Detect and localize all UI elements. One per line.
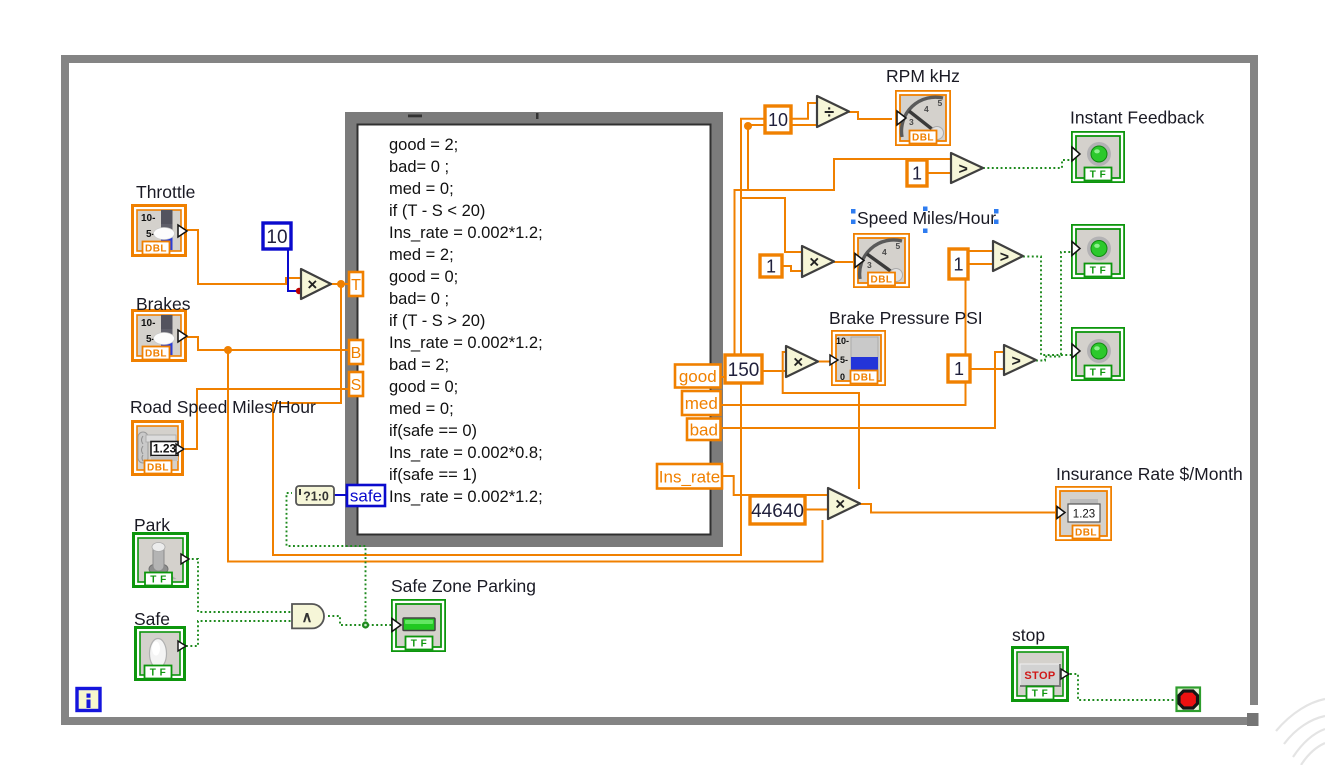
svg-text:bad = 2;: bad = 2;: [389, 356, 449, 374]
svg-text:4: 4: [924, 104, 929, 114]
svg-text:Brake Pressure PSI: Brake Pressure PSI: [829, 308, 983, 328]
svg-text:×: ×: [809, 253, 819, 272]
constant 44640: [750, 496, 805, 524]
comparator 3 greater: [1004, 345, 1036, 375]
control Park: [134, 534, 190, 587]
control Brakes: [133, 311, 188, 361]
loop iteration terminal: [77, 689, 100, 711]
svg-text:×: ×: [307, 275, 317, 294]
indicator Safe Zone Parking: [392, 600, 445, 651]
svg-text:Safe Zone Parking: Safe Zone Parking: [391, 576, 536, 596]
wire AND to Safe Zone Parking: [328, 616, 393, 625]
wire Road Speed to S tab: [185, 389, 348, 449]
wire select to safe tab (blue): [334, 494, 346, 496]
indicator Speed gauge: [854, 234, 909, 287]
loop condition terminal: [1177, 688, 1201, 712]
indicator Insurance Rate: [1056, 487, 1111, 540]
svg-text:Ins_rate = 0.002*0.8;: Ins_rate = 0.002*0.8;: [389, 444, 543, 462]
constant 10 blue: [263, 223, 291, 249]
svg-text:bad= 0 ;: bad= 0 ;: [389, 158, 449, 176]
svg-text:5: 5: [938, 98, 943, 108]
svg-text:good = 2;: good = 2;: [389, 136, 458, 154]
wire med tab to comparator 2: [721, 251, 993, 405]
svg-text:if(safe == 0): if(safe == 0): [389, 422, 477, 440]
svg-text:1: 1: [954, 359, 964, 379]
wire 1 to comparator 3: [970, 368, 1004, 370]
svg-text:Ins_rate = 0.002*1.2;: Ins_rate = 0.002*1.2;: [389, 334, 543, 352]
wire B value under formula node: [228, 350, 823, 562]
constant 10 orange: [765, 106, 791, 133]
svg-text:5: 5: [896, 241, 901, 251]
svg-text:T F: T F: [1090, 368, 1107, 379]
while loop border: [61, 55, 1259, 726]
svg-text:DBL: DBL: [870, 275, 892, 286]
AND gate: [292, 604, 324, 628]
svg-text:1: 1: [766, 256, 776, 276]
svg-text:T F: T F: [150, 575, 167, 586]
svg-text:good: good: [679, 367, 717, 386]
svg-text:T F: T F: [150, 668, 167, 679]
comparator 1 greater: [951, 153, 983, 183]
svg-text:bad: bad: [690, 420, 718, 439]
svg-text:5-: 5-: [840, 355, 848, 365]
wire feedback to select node: [287, 493, 366, 625]
wire T to speed multiply: [741, 198, 802, 252]
svg-text:stop: stop: [1012, 625, 1045, 645]
indicator Instant Feedback LED 1: [1072, 132, 1124, 182]
wire riser to divide input: [748, 125, 817, 190]
wire 1 to comparator 1: [927, 172, 951, 174]
svg-text:×: ×: [835, 495, 845, 514]
svg-text:150: 150: [728, 360, 760, 381]
svg-text:DBL: DBL: [147, 463, 169, 474]
control Throttle: [133, 206, 188, 256]
svg-text:4: 4: [882, 247, 887, 257]
svg-text:10: 10: [768, 110, 788, 130]
indicator Instant Feedback LED 2: [1072, 225, 1124, 278]
svg-text:10-: 10-: [141, 213, 155, 224]
multiply node speed: [802, 246, 834, 277]
multiply node throttle: [301, 269, 331, 299]
svg-text:DBL: DBL: [853, 373, 875, 384]
svg-text:>: >: [1011, 353, 1020, 370]
svg-text:DBL: DBL: [912, 133, 934, 144]
svg-text:T: T: [351, 277, 361, 294]
junction green: [362, 621, 369, 628]
wire bad tab to comparator 3: [721, 352, 1004, 428]
svg-text:1.23: 1.23: [153, 442, 177, 456]
wire stop to loop condition: [1070, 674, 1176, 700]
wire good tab to comparator 1: [720, 159, 951, 377]
decorative swoosh: [1276, 699, 1325, 765]
wire Park to AND gate: [183, 559, 292, 612]
wire comparator 3 to LED 2: [1036, 252, 1071, 361]
junction T: [337, 280, 345, 288]
svg-text:10: 10: [266, 227, 287, 248]
wire 44640 to insurance multiply: [805, 509, 828, 511]
formula node code text: [389, 136, 543, 506]
wire multiply to T tab: [331, 283, 348, 285]
svg-text:T F: T F: [1032, 689, 1049, 700]
wire 150 to brake multiply: [762, 370, 786, 372]
wire 10 constant to multiply (blue): [288, 249, 299, 291]
svg-text:0: 0: [840, 372, 845, 382]
svg-text:bad= 0 ;: bad= 0 ;: [389, 290, 449, 308]
svg-text:Safe: Safe: [134, 609, 170, 629]
svg-text:>: >: [1000, 249, 1009, 266]
wire insurance multiply to indicator: [860, 504, 1056, 513]
svg-text:RPM kHz: RPM kHz: [886, 66, 960, 86]
wire Safe to AND gate: [186, 621, 292, 646]
wire Brakes to B tab: [187, 337, 348, 350]
svg-text:Park: Park: [134, 515, 170, 535]
wire divide to RPM gauge: [849, 112, 892, 119]
multiply node insurance: [828, 488, 860, 519]
indicator RPM gauge: [896, 91, 950, 145]
tab good: [675, 365, 721, 388]
svg-text:if (T - S > 20): if (T - S > 20): [389, 312, 485, 330]
svg-text:Instant Feedback: Instant Feedback: [1070, 108, 1204, 128]
svg-text:T F: T F: [1090, 266, 1107, 277]
svg-text:44640: 44640: [751, 501, 804, 522]
divide node RPM: [817, 96, 849, 127]
constant 1 speed: [760, 255, 782, 277]
svg-text:S: S: [351, 377, 362, 394]
wire Throttle to multiply: [187, 230, 301, 284]
tab med: [682, 391, 721, 415]
coercion dot: [296, 288, 302, 294]
svg-text:10-: 10-: [836, 336, 849, 346]
control Road Speed: [133, 422, 185, 475]
svg-text:Ins_rate: Ins_rate: [659, 467, 720, 486]
indicator Instant Feedback LED 3: [1072, 328, 1124, 380]
wire brake upper input hook: [783, 352, 859, 489]
constant 1 comparator 3: [948, 355, 970, 382]
formula node: [345, 112, 723, 547]
multiply node brake: [786, 346, 818, 377]
tab B: [349, 340, 363, 364]
wire brake multiply to tank: [818, 361, 832, 363]
selection handles: [851, 207, 999, 234]
control Safe: [136, 628, 187, 680]
constant 150: [725, 355, 762, 383]
svg-text:DBL: DBL: [145, 349, 167, 360]
wire 1 to comparator 2: [968, 263, 993, 265]
svg-text:>: >: [958, 161, 967, 178]
tab Ins_rate: [657, 464, 722, 489]
svg-text:DBL: DBL: [145, 244, 167, 255]
wire T value around formula node: [273, 103, 817, 555]
svg-text:Brakes: Brakes: [136, 294, 191, 314]
wire speed multiply to gauge: [834, 261, 858, 263]
svg-text:med = 0;: med = 0;: [389, 180, 454, 198]
constant 1 comparator 1: [907, 160, 927, 186]
svg-text:DBL: DBL: [1075, 528, 1097, 539]
svg-text:Insurance Rate $/Month: Insurance Rate $/Month: [1056, 464, 1243, 484]
svg-text:3: 3: [909, 117, 914, 127]
svg-text:if(safe == 1): if(safe == 1): [389, 466, 477, 484]
tab S: [349, 372, 363, 396]
svg-text:good = 0;: good = 0;: [389, 268, 458, 286]
svg-text:safe: safe: [350, 487, 382, 506]
svg-text:Ins_rate = 0.002*1.2;: Ins_rate = 0.002*1.2;: [389, 224, 543, 242]
svg-text:med = 0;: med = 0;: [389, 400, 454, 418]
control stop button: [1013, 648, 1070, 701]
svg-text:×: ×: [793, 353, 803, 372]
wire comparator 2 to LED 3: [1023, 257, 1071, 356]
svg-text:T F: T F: [1090, 170, 1107, 181]
svg-text:1.23: 1.23: [1073, 509, 1095, 521]
comparator 2 greater: [993, 241, 1023, 271]
svg-text:÷: ÷: [824, 102, 834, 122]
wire comparator 1 to LED 1: [983, 160, 1070, 168]
junction divide: [744, 122, 752, 130]
svg-text:?1:0: ?1:0: [303, 490, 329, 504]
wire 1 to speed multiply: [782, 266, 802, 271]
svg-text:good = 0;: good = 0;: [389, 378, 458, 396]
svg-text:∧: ∧: [302, 609, 313, 626]
constant 1 comparator 2: [949, 249, 968, 279]
svg-text:med: med: [685, 394, 718, 413]
tab T: [349, 272, 363, 296]
svg-text:if (T - S < 20): if (T - S < 20): [389, 202, 485, 220]
select node ?1:0: [296, 486, 334, 505]
junction B: [224, 346, 232, 354]
svg-text:med = 2;: med = 2;: [389, 246, 454, 264]
svg-text:Ins_rate = 0.002*1.2;: Ins_rate = 0.002*1.2;: [389, 488, 543, 506]
svg-text:1: 1: [912, 163, 922, 183]
wire Ins_rate to insurance multiply: [722, 476, 828, 495]
svg-text:10-: 10-: [141, 318, 155, 329]
svg-text:Road Speed Miles/Hour: Road Speed Miles/Hour: [130, 397, 316, 417]
formula node clipped top text marks: [408, 113, 539, 119]
svg-text:1: 1: [953, 254, 963, 274]
indicator Brake Pressure tank: [830, 331, 885, 385]
svg-text:Throttle: Throttle: [136, 182, 195, 202]
svg-text:STOP: STOP: [1024, 670, 1055, 682]
svg-text:3: 3: [867, 260, 872, 270]
tab bad: [687, 419, 721, 441]
tab safe: [347, 485, 385, 506]
svg-text:B: B: [351, 345, 362, 362]
svg-text:T F: T F: [411, 639, 428, 650]
